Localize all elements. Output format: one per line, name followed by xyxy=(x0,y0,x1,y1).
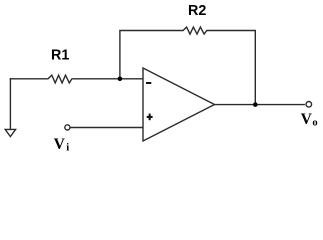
pin label: inverting input minus xyxy=(146,82,151,84)
svg-text:i: i xyxy=(66,143,69,154)
terminal Vi xyxy=(65,125,70,130)
wire: ground stem xyxy=(9,79,11,129)
wire: input net with resistor R1 xyxy=(10,75,143,83)
pin label: non-inverting input plus xyxy=(147,114,153,121)
svg-text:o: o xyxy=(312,118,317,129)
svg-text:V: V xyxy=(54,136,66,153)
wire: output xyxy=(215,104,305,106)
ground xyxy=(5,129,15,136)
svg-text:R2: R2 xyxy=(188,3,206,19)
op-amp U1 xyxy=(143,68,215,141)
terminal Vo xyxy=(306,102,312,108)
svg-text:R1: R1 xyxy=(51,47,69,63)
node: junction at inverting input xyxy=(118,77,123,82)
wire: non-inverting input from Vi xyxy=(70,127,143,129)
svg-text:V: V xyxy=(301,111,313,128)
node: junction at output xyxy=(253,102,258,107)
wire: feedback loop with resistor R2 xyxy=(120,27,255,105)
